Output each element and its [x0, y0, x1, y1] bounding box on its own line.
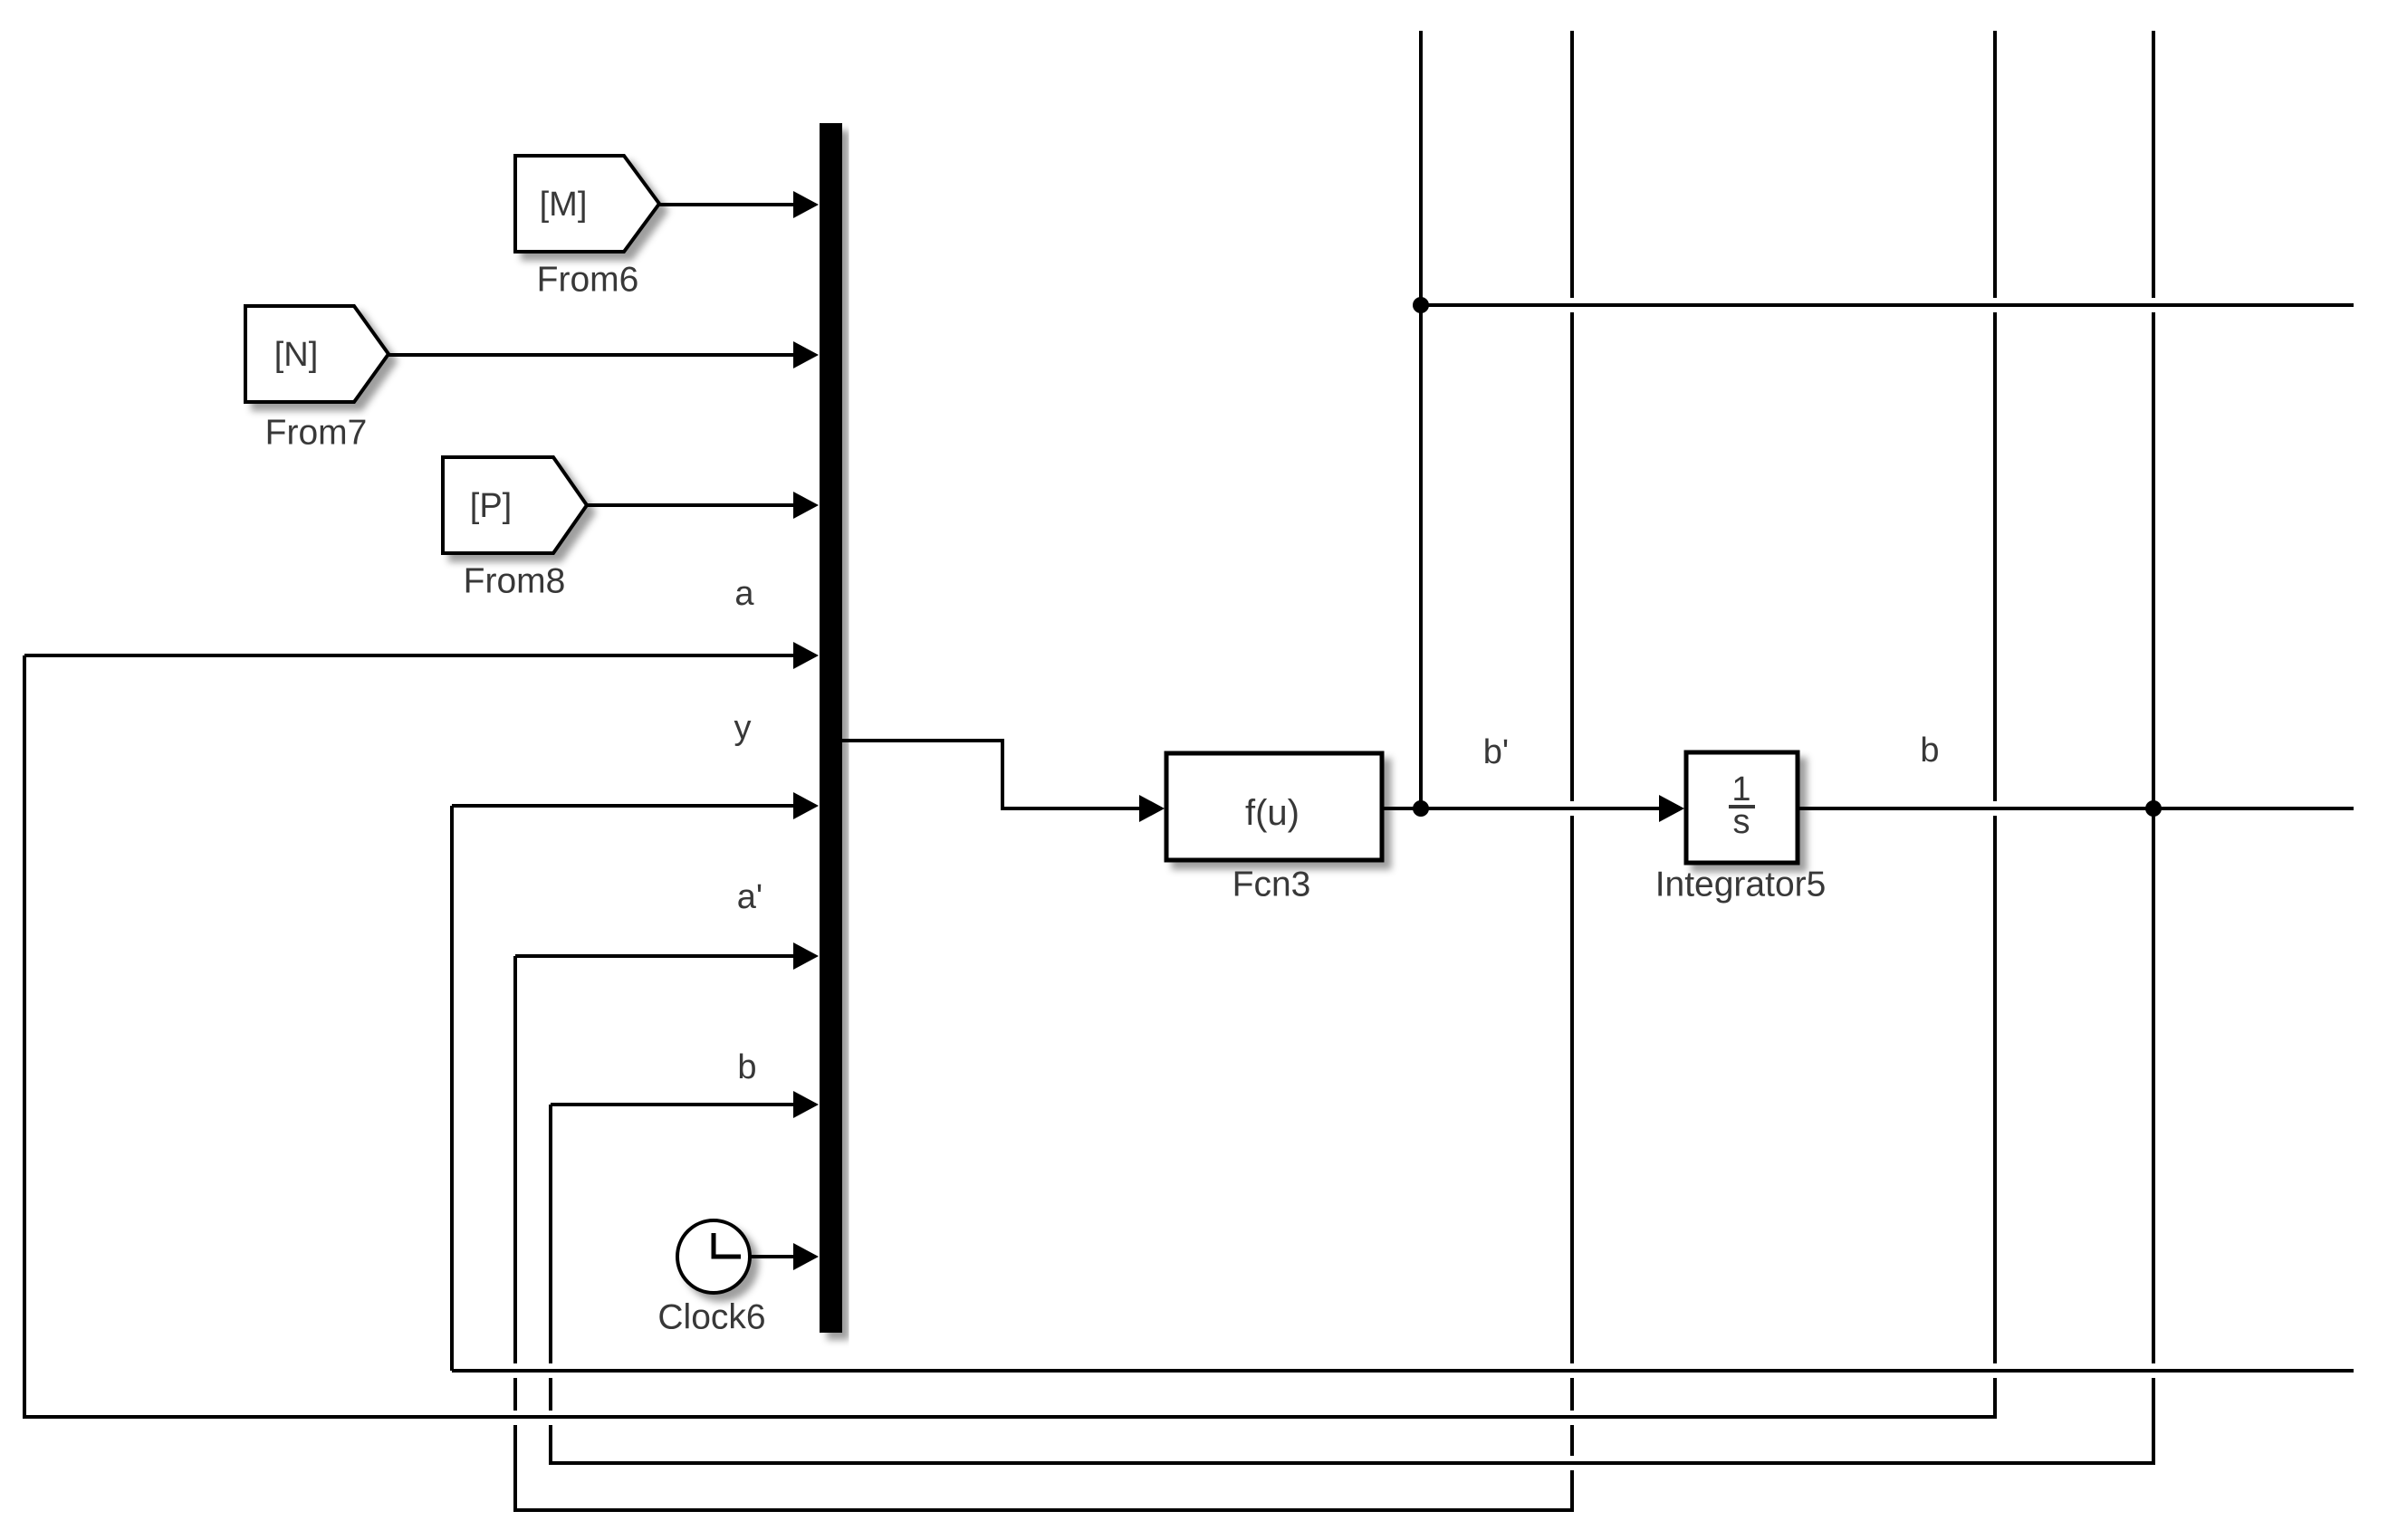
svg-text:a': a' — [737, 878, 762, 916]
wire From7 to Mux — [388, 353, 797, 357]
From7 block [N] — [245, 306, 388, 402]
svg-text:From7: From7 — [265, 414, 368, 453]
svg-text:f(u): f(u) — [1245, 793, 1299, 833]
wire Mux output to Fcn3 — [842, 741, 1141, 808]
Fcn3 block f(u) — [1166, 753, 1382, 860]
svg-text:b': b' — [1483, 733, 1509, 771]
wire a' left vertical (x=569) — [513, 956, 517, 1510]
wire y left vertical (x=499) — [450, 806, 454, 1371]
svg-text:Clock6: Clock6 — [657, 1298, 765, 1337]
wire b into Mux — [551, 1103, 797, 1106]
wire y bottom horizontal (y=1514) — [452, 1369, 2354, 1373]
wire a feedback vertical (x=2203) — [1993, 31, 1997, 1417]
junction node b — [2145, 800, 2162, 817]
junction node b' top — [1413, 297, 1429, 313]
wire b' feedback vertical (x=1569) — [1419, 31, 1423, 808]
svg-text:s: s — [1733, 803, 1750, 841]
svg-text:a: a — [734, 575, 754, 613]
svg-text:From6: From6 — [537, 261, 639, 300]
svg-text:b: b — [1920, 732, 1939, 770]
wire Fcn3 output to Integrator5 — [1382, 807, 1661, 810]
wire a' feedback vertical (x=1736) — [1570, 31, 1574, 1510]
svg-text:[N]: [N] — [274, 336, 319, 374]
wire b feedback vertical (x=2378) — [2152, 31, 2155, 1463]
wire b' horizontal (y=337) — [1421, 303, 2354, 307]
svg-text:[P]: [P] — [470, 487, 512, 525]
svg-text:[M]: [M] — [540, 186, 588, 224]
wire a into Mux — [24, 654, 797, 657]
Integrator5 block 1/s — [1686, 752, 1798, 863]
From6 block [M] — [515, 156, 659, 252]
svg-text:From8: From8 — [464, 562, 566, 601]
wire From8 to Mux — [587, 503, 797, 507]
wire Integrator5 output (b) — [1798, 807, 2354, 810]
svg-text:y: y — [734, 709, 752, 747]
svg-text:Fcn3: Fcn3 — [1232, 866, 1311, 904]
wire y into Mux — [452, 804, 797, 808]
Clock6 block — [677, 1220, 750, 1293]
wire Clock6 to Mux — [750, 1255, 797, 1258]
From8 block [P] — [443, 457, 587, 553]
svg-text:Integrator5: Integrator5 — [1655, 866, 1827, 904]
wire a bottom horizontal (y=1565) — [23, 1415, 1997, 1419]
wire From6 to Mux — [659, 203, 797, 206]
wire b left vertical (x=608) — [549, 1105, 552, 1463]
svg-text:b: b — [737, 1048, 756, 1086]
wire a' bottom horizontal (y=1668) — [513, 1508, 1574, 1512]
junction node b' on Fcn3 output — [1413, 800, 1429, 817]
wire a' into Mux — [515, 954, 797, 958]
wire crossing gaps — [512, 298, 2157, 1470]
wire a left vertical (x=27) — [23, 655, 26, 1417]
wire b bottom horizontal (y=1616) — [549, 1461, 2155, 1465]
Mux block — [820, 123, 842, 1333]
